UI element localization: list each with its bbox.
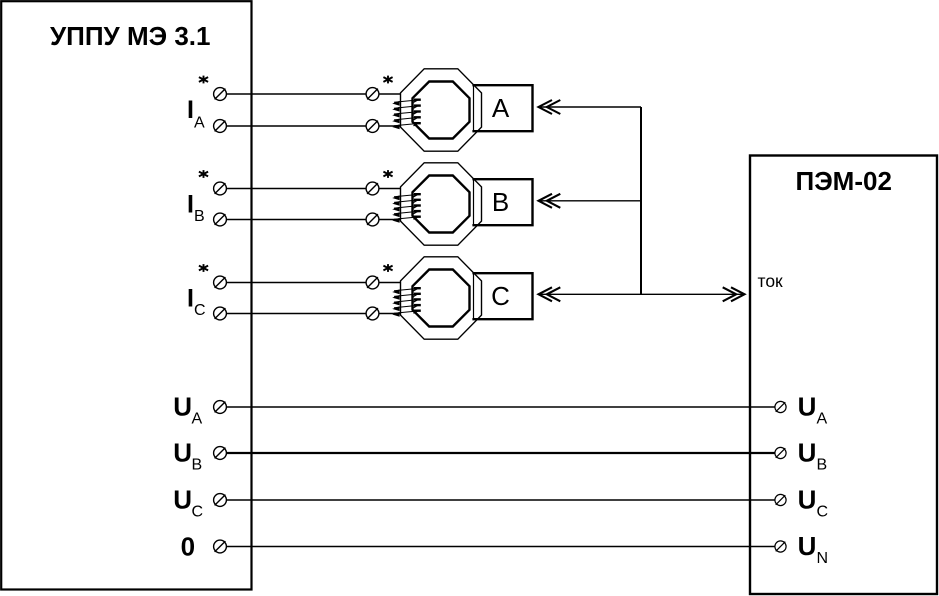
wire IA* from УППУ to CTA primary — [226, 93, 366, 95]
svg-text:C: C — [491, 281, 510, 311]
CTA winding turns — [392, 100, 421, 130]
arrowhead into box C — [539, 287, 553, 301]
wire IA return from CTA primary — [226, 125, 366, 127]
polarity mark * at CTC — [387, 264, 389, 272]
svg-text:A: A — [194, 114, 205, 131]
CTB primary terminal marked — [366, 182, 379, 195]
CTC winding turns — [392, 288, 421, 317]
arrowhead into box A — [539, 100, 553, 114]
current transformer CTB core outer — [401, 163, 482, 245]
svg-text:B: B — [194, 208, 205, 225]
phase box A of CTA — [472, 85, 532, 131]
svg-text:A: A — [192, 411, 203, 428]
svg-text:U: U — [173, 485, 192, 515]
phase box C of CTC — [472, 273, 532, 319]
current transformer CTB core inner — [413, 176, 470, 233]
current transformer CTC core inner — [413, 270, 470, 327]
terminal IC (left, unmarked) — [214, 307, 227, 320]
wire IC return from CTC primary — [226, 313, 366, 315]
svg-text:U: U — [798, 392, 817, 422]
wire IC* from УППУ to CTC primary — [226, 282, 366, 284]
svg-text:I: I — [187, 191, 194, 219]
svg-text:ток: ток — [758, 271, 784, 291]
phase box B of CTB — [472, 179, 532, 225]
vertical bus wire — [640, 107, 642, 294]
CTC primary terminal marked — [366, 276, 379, 289]
svg-text:B: B — [192, 457, 203, 474]
wire bus to box A — [539, 106, 642, 108]
terminal UB (ПЭМ-02) — [775, 447, 786, 458]
svg-text:C: C — [192, 504, 204, 521]
svg-text:УППУ МЭ 3.1: УППУ МЭ 3.1 — [50, 21, 210, 51]
wire IB* from УППУ to CTB primary — [226, 188, 366, 190]
terminal IA (left, unmarked) — [214, 120, 227, 133]
terminal UA (УППУ) — [214, 401, 227, 414]
svg-text:A: A — [817, 411, 828, 428]
polarity mark * at IB left terminal — [203, 170, 205, 178]
terminal IC star (left, marked) — [214, 276, 227, 289]
svg-text:A: A — [492, 93, 510, 123]
svg-text:U: U — [173, 438, 192, 468]
current transformer CTC core outer — [401, 257, 482, 339]
polarity mark * at CTA — [387, 76, 389, 84]
wire IB return from CTB primary — [226, 219, 366, 221]
svg-text:U: U — [798, 438, 817, 468]
wire bus to box B — [539, 200, 642, 202]
wire UA to ПЭМ-02 — [226, 406, 775, 408]
svg-text:U: U — [798, 485, 817, 515]
polarity mark * at IA left terminal — [203, 76, 205, 84]
svg-text:I: I — [187, 285, 194, 313]
svg-text:B: B — [492, 187, 509, 217]
wire 0 to ПЭМ-02 — [226, 546, 775, 548]
svg-text:B: B — [817, 457, 828, 474]
terminal UB (УППУ) — [214, 447, 227, 460]
arrowhead into box B — [539, 194, 553, 208]
svg-text:N: N — [817, 550, 829, 567]
svg-text:I: I — [187, 96, 194, 124]
terminal IB star (left, marked) — [214, 182, 227, 195]
current transformer CTA core inner — [413, 82, 470, 139]
svg-text:C: C — [194, 302, 206, 319]
CTA primary terminal marked — [366, 88, 379, 101]
wire UB to ПЭМ-02 — [226, 452, 775, 454]
terminal IB (left, unmarked) — [214, 213, 227, 226]
svg-text:C: C — [817, 504, 829, 521]
CTB primary terminal unmarked — [366, 213, 379, 226]
svg-text:ПЭМ-02: ПЭМ-02 — [796, 166, 892, 196]
CTB winding turns — [392, 194, 421, 223]
terminal UN (ПЭМ-02) — [775, 541, 786, 552]
arrowhead into ПЭМ-02 ток input — [731, 287, 745, 301]
current transformer CTA core outer — [401, 69, 482, 151]
terminal UC (ПЭМ-02) — [775, 494, 786, 505]
CTA primary terminal unmarked — [366, 120, 379, 133]
polarity mark * at CTB — [387, 170, 389, 178]
terminal UC (УППУ) — [214, 494, 227, 507]
terminal IA star (left, marked) — [214, 88, 227, 101]
terminal 0 (УППУ) — [214, 540, 227, 553]
device box УППУ МЭ 3.1 — [1, 1, 251, 589]
svg-text:U: U — [798, 531, 817, 561]
svg-text:0: 0 — [181, 532, 195, 562]
wire UC to ПЭМ-02 — [226, 499, 775, 501]
wire bus to box C and to ПЭМ-02 current input — [539, 293, 745, 295]
device box ПЭМ-02 — [750, 156, 937, 595]
polarity mark * at IC left terminal — [203, 264, 205, 272]
svg-text:U: U — [173, 392, 192, 422]
CTC primary terminal unmarked — [366, 307, 379, 320]
terminal UA (ПЭМ-02) — [775, 401, 786, 412]
